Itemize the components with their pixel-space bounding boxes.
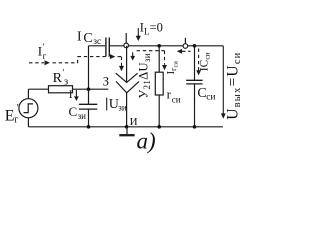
label Eг'	[5, 103, 19, 126]
node C terminal circle with stub	[184, 38, 186, 44]
label Cзи	[69, 104, 87, 121]
arrow IL down	[136, 28, 141, 41]
svg-text:а): а)	[137, 129, 156, 154]
label Uзи with bar	[107, 97, 127, 112]
capacitor Cзи	[79, 89, 97, 127]
arrowhead ICзс right	[110, 54, 115, 59]
dashed path drain current horizontal	[137, 50, 165, 52]
svg-text:R: R	[53, 71, 63, 86]
output arrow Uвых	[221, 46, 226, 119]
label Rз'	[53, 68, 69, 88]
dashed arrow Irси	[162, 51, 167, 70]
resistor rси	[155, 46, 163, 127]
label Iг' (input current)	[38, 42, 47, 61]
svg-text:I: I	[77, 28, 82, 43]
wire top bus left segment (gate riser top to Cзс)	[89, 45, 106, 47]
junction dot Cси bottom	[193, 125, 197, 129]
svg-text:си: си	[206, 92, 215, 102]
capacitor Cси	[186, 46, 202, 127]
step symbol inside source	[24, 104, 34, 113]
label Cси	[197, 86, 215, 102]
wire gate riser	[88, 46, 90, 89]
junction dot gate node	[87, 87, 91, 91]
svg-text:C: C	[69, 104, 78, 119]
junction dot rси top	[157, 44, 161, 48]
label I Cзс	[77, 28, 101, 46]
wire top bus from Cзс to right corner	[110, 45, 223, 47]
dashed path under Cзс with arrow	[78, 56, 109, 58]
ground	[119, 127, 134, 135]
label IL=0	[140, 21, 163, 37]
svg-text:си: си	[172, 94, 181, 104]
svg-text:г: г	[14, 115, 18, 126]
dashed arrow ICси down	[196, 49, 201, 76]
dashed path down to channel	[121, 57, 123, 66]
junction dot gate bottom	[87, 125, 91, 129]
node drain-side terminal circle with stub	[125, 33, 127, 43]
svg-text:г: г	[43, 51, 47, 61]
current I arrow into Cзи	[69, 89, 79, 101]
junction dot Cси top	[193, 44, 197, 48]
resistor Rз'	[28, 86, 108, 93]
arrowhead down to channel	[119, 66, 124, 71]
svg-text:И: И	[130, 116, 138, 128]
label rси	[167, 87, 181, 105]
junction dot rси bottom	[157, 125, 161, 129]
svg-text:=0: =0	[150, 21, 163, 35]
small current arrow at drain node	[130, 52, 135, 60]
dashed current path Iг: left horizontal with arrow	[29, 57, 122, 66]
arrowhead Iг	[45, 60, 50, 65]
svg-text:C: C	[83, 31, 92, 46]
source Eг' circle	[19, 89, 38, 127]
svg-text:′: ′	[17, 103, 19, 114]
svg-text:I: I	[38, 44, 42, 59]
dashed arrow ICси leftwards on bus	[177, 49, 191, 54]
svg-text:I: I	[69, 89, 73, 101]
svg-text:зи: зи	[118, 103, 127, 113]
dependent source У21ΔUзи (double chevron)	[116, 46, 139, 127]
svg-text:зи: зи	[78, 111, 87, 121]
svg-text:з: з	[64, 77, 68, 88]
junction dot source bottom	[125, 125, 129, 129]
wire bottom bus	[28, 126, 223, 128]
svg-text:Е: Е	[5, 108, 15, 125]
capacitor Cзс plates	[106, 38, 109, 57]
svg-text:зс: зс	[93, 37, 101, 47]
dashed path jog up	[77, 57, 79, 64]
svg-text:З: З	[103, 74, 109, 88]
